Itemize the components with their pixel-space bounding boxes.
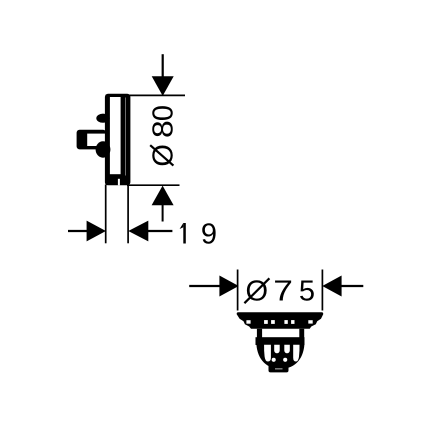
svg-text:9: 9 [201, 219, 217, 251]
dim 19 right tail [148, 230, 172, 232]
plate right wall seam [125, 98, 126, 176]
sleeve interior [87, 134, 105, 146]
strainer neck left wall [257, 329, 262, 338]
svg-text:5: 5 [299, 276, 315, 308]
bottom tab [269, 363, 289, 373]
svg-text:8: 8 [147, 120, 179, 138]
label Ø75 [244, 275, 315, 308]
strainer flange body [237, 312, 324, 329]
flange slot d [291, 320, 294, 324]
dim Ø75 right tail [341, 285, 363, 287]
flange slot a [264, 320, 268, 324]
flange slot c [284, 320, 287, 324]
dim Ø75 left arrowhead [219, 276, 238, 297]
dim 19 left extension line [105, 185, 107, 244]
plate interior [110, 97, 121, 174]
label Ø80 (rotated) [147, 105, 180, 167]
plate bottom slit [118, 179, 120, 186]
dim 19 left tail [68, 230, 88, 232]
svg-text:7: 7 [273, 275, 293, 307]
dim Ø75 left tail [189, 285, 220, 287]
dim Ø80 upper arrowhead [152, 76, 174, 96]
wall sleeve stub [77, 130, 106, 150]
flange slot wedge left [246, 320, 250, 324]
dim Ø80 upper shaft [162, 54, 164, 78]
basket slot 2 [274, 345, 280, 354]
strainer neck right wall [299, 329, 304, 338]
dim 19 right extension line [127, 186, 129, 244]
dim Ø75 left extension line [237, 270, 239, 311]
dim 19 right arrowhead [128, 221, 148, 242]
dim Ø80 bottom extension line [127, 184, 180, 186]
clip bump bottom [96, 141, 111, 157]
dim 19 left arrowhead [87, 221, 106, 242]
dim Ø80 lower shaft [162, 205, 164, 222]
dim Ø80 top extension line [126, 94, 185, 96]
label 19: digit 1 (custom, no foot serif) [180, 223, 186, 244]
basket hole left [272, 358, 276, 362]
dim Ø75 right extension line [321, 270, 323, 311]
basket bowl [256, 342, 304, 369]
basket slot 1 [264, 345, 271, 362]
basket hole right [283, 358, 287, 362]
basket top band [256, 337, 305, 345]
tab seam [275, 368, 283, 369]
clip bump top [96, 114, 109, 123]
escutcheon plate (side view) [105, 94, 130, 186]
basket slot 4 [293, 345, 299, 362]
dim Ø80 lower arrowhead [152, 186, 174, 206]
dim Ø75 right arrowhead [322, 276, 341, 297]
svg-text:0: 0 [148, 105, 180, 121]
flange slot wedge right [308, 320, 312, 323]
basket slot 3 [284, 345, 290, 354]
flange slot b [271, 320, 275, 324]
